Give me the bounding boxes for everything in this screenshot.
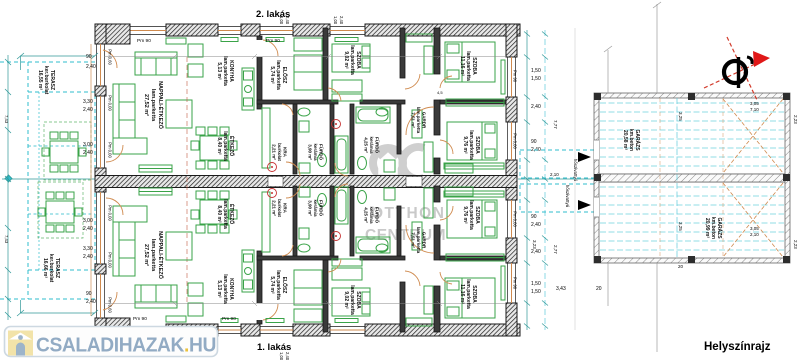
svg-text:lam.parketta: lam.parketta [465,51,471,81]
svg-text:ÉTKEZŐ: ÉTKEZŐ [228,204,236,224]
svg-text:lam.parketta: lam.parketta [349,45,355,75]
terrace dining set upper [42,132,86,172]
svg-text:1. lakás: 1. lakás [257,342,291,353]
svg-text:GARÁZS: GARÁZS [634,129,641,151]
svg-text:Pm 0,60: Pm 0,60 [108,49,113,65]
garage X brace bottom [723,183,783,257]
door arc terrace [103,50,117,68]
sofa horizontal [135,52,177,75]
svg-text:9,76 m²: 9,76 m² [462,206,468,224]
svg-text:3,23: 3,23 [532,240,537,249]
svg-text:2. lakás: 2. lakás [256,9,290,20]
svg-text:2,40: 2,40 [339,16,344,25]
svg-text:lam.parketta: lam.parketta [275,60,281,90]
door arc bath [335,163,348,176]
svg-text:Pm 0,00: Pm 0,00 [108,95,113,111]
svg-text:lam.parketta: lam.parketta [222,199,228,229]
svg-text:7,43: 7,43 [4,115,9,124]
svg-text:GARÁZS: GARÁZS [716,217,723,239]
left dimension chain [5,55,11,320]
csaladihazak.hu logo [5,327,218,357]
svg-text:kerámia: kerámia [369,206,374,224]
svg-text:5,74 m²: 5,74 m² [269,66,275,84]
svg-text:GARDR: GARDR [422,112,427,129]
svg-text:KONYHA: KONYHA [228,278,234,300]
outer wall bottom [95,324,520,336]
tv board [166,38,186,44]
terrace dining set lower [38,192,82,232]
svg-text:90: 90 [86,54,92,60]
door arc pantry [282,104,293,115]
radiator strip [446,99,504,106]
svg-text:3,05: 3,05 [750,101,759,106]
door arc bedroom3 [440,140,453,154]
garage joist lines [600,103,784,250]
svg-text:3,00: 3,00 [83,142,93,148]
wall bedrooms divider y100 right [440,100,506,104]
svg-text:FÜRDŐ: FÜRDŐ [375,137,381,153]
wall gardr/bedrooms x434 [434,28,440,74]
svg-text:lam.parketta: lam.parketta [349,285,355,315]
right wall window radiator [501,60,505,94]
svg-text:Pm 90: Pm 90 [266,38,280,44]
svg-text:4,25 m²: 4,25 m² [363,207,368,223]
svg-text:kerámia: kerámia [313,143,318,161]
svg-text:1,50: 1,50 [531,76,541,82]
right edge dims [793,115,798,124]
terrace dim lines horizontal [17,53,98,316]
svg-text:20,58 m²: 20,58 m² [622,130,628,150]
svg-text:kerámia: kerámia [369,136,374,154]
symmetry axis left [2,175,95,182]
party wall center [95,176,517,188]
svg-text:5,74 m²: 5,74 m² [269,276,275,294]
svg-text:Pm 0,00: Pm 0,00 [513,133,518,149]
bedroom1 wardrobe [332,94,362,101]
L-sofa [113,84,147,154]
site guide verticals [604,2,661,352]
svg-text:FÜRDŐ: FÜRDŐ [375,207,381,223]
svg-text:lam.parketta: lam.parketta [150,89,156,122]
svg-text:4,25 m²: 4,25 m² [363,137,368,153]
svg-text:27,52 m²: 27,52 m² [143,94,150,116]
wall corridor h y100 [257,100,338,104]
apartment interior mirrored (bottom unit) [103,184,506,332]
room labels top unit [143,81,165,130]
svg-text:ELŐSZ: ELŐSZ [281,67,288,84]
wall bedroom/gardr x400 [400,28,405,78]
pantry shelf [262,108,270,168]
svg-text:Pm 90: Pm 90 [222,316,236,322]
svg-text:ELŐSZ: ELŐSZ [281,277,288,294]
svg-text:ÉTKEZŐ: ÉTKEZŐ [228,136,236,156]
red mark bath [332,120,341,129]
svg-text:2,23: 2,23 [793,240,798,249]
svg-text:2,21 m²: 2,21 m² [271,144,276,160]
svg-text:OTTHON: OTTHON [371,205,445,222]
svg-text:FÜRDŐ: FÜRDŐ [319,200,325,216]
svg-text:KRA: KRA [283,203,288,213]
outer wall right [506,24,517,336]
terrace paving dashed boxes [38,122,91,238]
svg-text:1,50: 1,50 [531,289,541,295]
svg-text:9,02 m²: 9,02 m² [343,291,349,309]
svg-text:lam.parketta: lam.parketta [150,239,156,272]
svg-text:2,40: 2,40 [83,107,93,113]
svg-text:ker.burkolat: ker.burkolat [48,254,54,283]
svg-text:ker.burkolat: ker.burkolat [43,66,49,95]
door arc bedroom2 [440,76,452,88]
left chain labels [4,115,9,124]
washing machine [384,160,395,172]
svg-text:2,21 m²: 2,21 m² [271,200,276,216]
hall wardrobe [294,38,322,90]
dining table set [191,127,237,169]
svg-text:11,16 m²: 11,16 m² [459,56,465,76]
svg-text:7,51 m²: 7,51 m² [410,232,415,248]
svg-text:16,55 m²: 16,55 m² [37,70,43,90]
bedroom2 bed [445,42,495,82]
entrance door big arc [406,107,434,135]
svg-text:KRA: KRA [283,147,288,157]
svg-text:9,76 m²: 9,76 m² [462,136,468,154]
svg-text:7,77: 7,77 [553,120,558,129]
svg-text:2,40: 2,40 [531,104,541,110]
svg-text:Pm 90: Pm 90 [513,277,518,290]
garage vertical guides [676,98,678,258]
svg-text:Helyszínrajz: Helyszínrajz [704,341,771,353]
svg-text:SZOBA: SZOBA [471,57,477,75]
coffee table [166,100,192,128]
svg-text:2,40: 2,40 [83,254,93,260]
svg-text:1,00: 1,00 [333,16,338,25]
svg-text:90: 90 [86,291,92,297]
svg-text:lam.parketta: lam.parketta [275,270,281,300]
section line red dashed [186,57,188,303]
terrace labels [37,66,55,95]
svg-text:8,40 m²: 8,40 m² [216,205,222,223]
svg-text:5,13 m²: 5,13 m² [216,62,222,80]
svg-text:7,43: 7,43 [4,235,9,244]
svg-text:2,40: 2,40 [285,352,290,361]
armchair 2 [188,64,203,77]
garage labels [622,129,641,151]
door arc terrace lower [106,145,123,162]
svg-text:1,00: 1,00 [279,352,284,361]
entrance door arc [286,162,300,176]
svg-text:2,10: 2,10 [750,232,759,237]
svg-text:FÜRDŐ: FÜRDŐ [319,144,325,160]
svg-text:8,40 m²: 8,40 m² [216,137,222,155]
garage X brace top [723,99,783,257]
svg-text:2,77: 2,77 [553,245,558,254]
wall hall/bedroom x323 [323,28,328,102]
bedroom1 bed [332,44,370,92]
svg-text:2,40: 2,40 [86,299,96,305]
svg-text:lam.parketta: lam.parketta [465,279,471,309]
svg-text:lam.parketta: lam.parketta [222,274,228,304]
svg-text:SZOBA: SZOBA [355,291,361,309]
wall pantry/bath x293 [293,104,297,174]
svg-text:2,40: 2,40 [86,64,96,70]
svg-text:lam.parketta: lam.parketta [468,200,474,230]
svg-text:KONYHA: KONYHA [228,60,234,82]
svg-text:90: 90 [531,214,537,220]
walkway arrows [578,152,591,162]
bedroom3 bed [445,122,497,173]
svg-text:2,10: 2,10 [550,172,559,177]
svg-text:burkolat: burkolat [277,199,282,217]
svg-text:GARDR: GARDR [422,232,427,249]
svg-text:lam.parketta: lam.parketta [222,131,228,161]
wall bath x330 [330,104,334,174]
svg-text:3,90 m²: 3,90 m² [307,200,312,216]
armchair 1 [188,44,203,57]
svg-text:3,00: 3,00 [83,218,93,224]
red mark hall [268,163,277,172]
svg-text:1,50: 1,50 [531,68,541,74]
svg-text:Pm 0,00: Pm 0,00 [513,211,518,227]
compass rose [704,37,770,100]
svg-text:NAPPALI-ÉTKEZŐ: NAPPALI-ÉTKEZŐ [157,81,165,130]
svg-text:3,43: 3,43 [556,286,566,292]
svg-text:3,05: 3,05 [750,226,759,231]
svg-text:lam.parketta: lam.parketta [468,130,474,160]
svg-text:hőszivattyú: hőszivattyú [573,159,578,182]
door arc gardr [405,74,420,89]
garage middle wall [599,174,785,182]
kitchen counter [242,68,254,110]
svg-text:11,16 m²: 11,16 m² [459,284,465,304]
wall bath2/gardr x397 [397,104,401,154]
svg-text:2,40: 2,40 [531,222,541,228]
svg-text:7,10: 7,10 [750,107,759,112]
door arc bedroom1 [328,88,341,101]
svg-text:20,99 m²: 20,99 m² [704,218,710,238]
walkway dashes [520,150,596,212]
terrace dashed outline [0,62,95,299]
garage door gaps left wall [594,140,599,160]
svg-text:NAPPALI-ÉTKEZŐ: NAPPALI-ÉTKEZŐ [157,231,165,280]
svg-text:kerámia: kerámia [313,199,318,217]
svg-text:4,5: 4,5 [437,90,443,95]
svg-text:Pm 0,00: Pm 0,00 [108,142,113,158]
svg-text:3,30: 3,30 [83,246,93,252]
svg-text:Pm 0,00: Pm 0,00 [108,252,113,268]
svg-text:SZOBA: SZOBA [355,51,361,69]
sideboard living [139,165,172,172]
svg-text:5,13 m²: 5,13 m² [216,280,222,298]
svg-text:3,30: 3,30 [83,99,93,105]
bath1 fixtures [298,108,327,173]
svg-text:km.beton: km.beton [710,217,716,239]
svg-text:lam.parketta: lam.parketta [222,56,228,86]
svg-text:20: 20 [678,264,684,269]
right wall Pm labels [513,70,518,83]
garage outer walls [594,93,790,263]
svg-text:20: 20 [596,286,602,292]
right dimension chains [524,30,548,330]
svg-text:16,66 m²: 16,66 m² [42,258,48,278]
svg-text:TERASZ: TERASZ [54,258,60,278]
svg-text:TERASZ: TERASZ [49,70,55,90]
svg-text:hőszivattyú: hőszivattyú [565,185,570,208]
svg-text:Pm 90: Pm 90 [513,70,518,83]
interior dim line [104,54,506,59]
svg-text:Pm 90: Pm 90 [133,316,147,322]
svg-text:SZOBA: SZOBA [471,285,477,303]
radiator strip party [444,163,504,169]
svg-text:Pm 0,00: Pm 0,00 [108,205,113,221]
watermark logo [365,147,446,244]
wall kitchen/hall x256 [257,36,262,109]
svg-text:Pm 0,60: Pm 0,60 [108,297,113,313]
apartment interior geometry (top unit) [103,28,506,176]
bath2 tub [335,107,390,173]
window radiators top wall [221,38,358,42]
svg-text:27,52 m²: 27,52 m² [143,244,150,266]
gardr shelves [406,34,433,172]
svg-text:burkolat: burkolat [277,143,282,161]
garage corner blocks [594,93,790,263]
room labels bottom unit [143,231,165,280]
svg-text:2,40: 2,40 [531,249,541,255]
svg-text:3,25: 3,25 [678,112,683,121]
svg-text:2,40: 2,40 [83,150,93,156]
door arc hall [263,40,278,56]
svg-text:CSALADIHAZAK.HU: CSALADIHAZAK.HU [36,335,216,357]
svg-text:1,50: 1,50 [531,281,541,287]
svg-text:km.beton: km.beton [628,129,634,151]
svg-text:3,25: 3,25 [678,222,683,231]
symmetry axis right [518,178,600,180]
svg-text:9,02 m²: 9,02 m² [343,51,349,69]
svg-text:90: 90 [531,139,537,145]
svg-text:lam.parketta: lam.parketta [416,107,421,134]
orange guide line left [90,44,92,316]
svg-text:7,51 m²: 7,51 m² [410,112,415,128]
left dim labels [108,49,113,65]
outer wall top [95,24,520,36]
outer wall left [95,24,130,338]
svg-text:lam.parketta: lam.parketta [416,227,421,254]
svg-text:2,23: 2,23 [793,115,798,124]
svg-text:SZOBA: SZOBA [474,206,480,224]
svg-text:SZOBA: SZOBA [474,136,480,154]
site extension line [574,28,576,330]
walkway labels [565,185,570,208]
svg-text:2,40: 2,40 [83,226,93,232]
wall shower x350 [350,104,354,174]
svg-text:3,90 m²: 3,90 m² [307,144,312,160]
svg-text:Pm 90: Pm 90 [137,38,151,44]
